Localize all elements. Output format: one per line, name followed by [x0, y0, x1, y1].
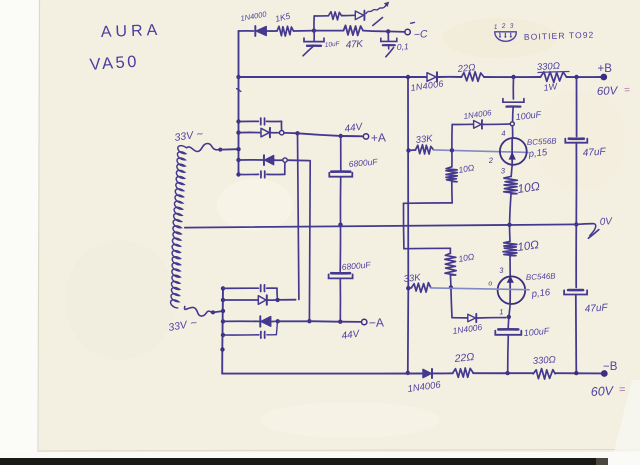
wire +A node down to C3: [340, 136, 342, 170]
diode D9 1N4006 upper: [474, 120, 482, 129]
capacitor C11 snubber: [261, 285, 265, 292]
node -B rail at C8: [574, 371, 578, 375]
diode D8 1N4006 on -B rail: [423, 369, 432, 378]
wire R12 to 0V: [510, 194, 512, 225]
wire 0V terminal hook: [576, 224, 599, 239]
node -B rail at C6: [505, 371, 509, 375]
svg-text:47uF: 47uF: [582, 146, 606, 159]
pin label 3 Q2: [499, 266, 505, 275]
wire 0V to R13: [509, 225, 512, 242]
label 60V bottom: [590, 384, 626, 399]
node 47uF at 0V: [574, 222, 578, 226]
label -B: [603, 361, 618, 373]
label BC556B: [527, 136, 558, 147]
svg-text:4: 4: [501, 129, 506, 138]
wire cap4 row: [223, 334, 259, 336]
wire corner left: [404, 202, 453, 204]
wire R5 to node2: [363, 30, 388, 33]
wire C6 to -B rail: [507, 335, 510, 373]
wire emitter2 to C6: [507, 317, 510, 328]
wire C4 to -A rail: [339, 278, 341, 321]
wire 47uF column upper: [576, 77, 578, 137]
wire ring to Q1: [511, 126, 513, 138]
wire -A rail b: [309, 320, 338, 323]
wire cap3 to corner: [267, 288, 278, 297]
node emitter2 diode junction: [507, 315, 511, 319]
node bias feed 33K lower: [406, 286, 410, 290]
wire +A node to cap node: [298, 133, 339, 136]
wire R10 to corner: [451, 181, 453, 203]
label 10uF: [324, 40, 340, 49]
wire 33K upper lead: [409, 149, 416, 151]
pin label 4: [501, 129, 506, 138]
label 60V top: [597, 85, 630, 98]
wire diode2 row: [239, 159, 263, 161]
label 1N4006 D9: [463, 108, 493, 121]
resistor R13 10R emitter lower: [503, 241, 517, 255]
wire node up to sub-branch: [314, 16, 329, 31]
pin label 2 Q2: [488, 280, 493, 287]
wire base 1 light blue: [434, 150, 529, 153]
label 0V: [599, 216, 613, 228]
wire base 2 light blue: [431, 288, 529, 290]
resistor R8 22R: [453, 368, 473, 377]
wire cap2 to ring: [267, 162, 285, 174]
svg-text:1: 1: [499, 307, 504, 316]
svg-text:22Ω: 22Ω: [453, 351, 475, 365]
resistor R7 330R 1W: [541, 72, 567, 83]
transformer T1 primary coil: [171, 146, 186, 308]
capacitor C6 100uF lower: [495, 329, 521, 335]
label 33V~ bottom: [167, 317, 198, 334]
resistor R1 33K upper: [416, 145, 434, 154]
title VA50: [89, 53, 140, 74]
label -C: [411, 22, 429, 41]
label 47uF lower: [584, 302, 608, 315]
wire Q2 emitter down: [509, 304, 510, 317]
node D3 output: [275, 298, 279, 302]
wire cap4 to D4 node: [267, 324, 278, 335]
label 6800uF upper: [348, 156, 378, 169]
resistor R12 10R emitter upper: [504, 176, 518, 193]
wire D4 to node: [271, 320, 275, 322]
wire ring to +A node: [284, 132, 295, 134]
node +A at 6800uF: [339, 134, 343, 138]
wire cap3 row: [223, 287, 258, 289]
resistor R9 330R: [533, 369, 555, 380]
pin label 3: [500, 166, 506, 175]
wire base2 down: [451, 287, 468, 318]
svg-text:0,1: 0,1: [396, 41, 409, 52]
label 1N4006 D10: [452, 322, 483, 336]
wire D2 to ring: [274, 159, 282, 161]
node top branch junction 2: [386, 29, 390, 33]
wire ring to corner: [287, 159, 309, 161]
resistor R3 1K5: [277, 26, 294, 36]
wire node to R5: [314, 30, 344, 32]
wire R3 to node: [294, 30, 314, 32]
terminal +A: [363, 134, 368, 139]
node upper bus at +B rail: [236, 75, 240, 79]
svg-text:22Ω: 22Ω: [456, 62, 476, 75]
wire diode4 row: [223, 320, 259, 322]
svg-text:60V: 60V: [590, 384, 615, 399]
node -A at x310: [307, 319, 311, 323]
wire to +A terminal: [341, 135, 363, 137]
label 123 pins: [494, 23, 515, 31]
svg-text:47K: 47K: [345, 39, 364, 51]
node D1 output ring: [280, 131, 284, 135]
svg-text:33K: 33K: [415, 133, 434, 146]
wire -A rail c: [340, 321, 361, 323]
label 33V~ top: [174, 128, 205, 144]
terminal -C: [405, 29, 410, 34]
svg-text:0V: 0V: [599, 216, 613, 228]
label 330R: [537, 61, 569, 73]
svg-text:+A: +A: [371, 130, 386, 145]
node +B rail at C5: [511, 75, 515, 79]
wire R11 to base2: [449, 275, 452, 287]
resistor R4 top sub-branch: [329, 12, 342, 20]
capacitor C10 snubber: [261, 171, 265, 178]
diode D3 rectifier +A: [258, 295, 267, 304]
label BC546B: [526, 271, 557, 282]
svg-text:o: o: [488, 280, 493, 287]
transistor Q2 BC546B: [498, 276, 526, 304]
wire corner right: [404, 247, 451, 249]
node 0V at emitters: [507, 223, 511, 227]
wire +A vertical x298: [298, 133, 299, 299]
node +B rail at C7: [574, 75, 578, 79]
node lower bridge diode4 row: [221, 319, 225, 323]
capacitor C7 47uF upper: [565, 139, 587, 143]
diode D1 rectifier +A: [261, 128, 270, 137]
svg-text:−B: −B: [603, 361, 618, 373]
wire bias feed vertical: [407, 77, 410, 373]
label 22R: [456, 62, 476, 75]
sketch TO92 package: [495, 32, 516, 42]
label BOITIER TO92: [524, 30, 595, 42]
node base2 junction: [449, 285, 453, 289]
node top branch junction: [312, 28, 316, 32]
label 100uF upper: [515, 109, 542, 122]
wire diode3 row: [223, 299, 258, 301]
wire cap2 row: [239, 173, 259, 175]
node lower bus extra: [220, 347, 224, 351]
wire transformer bottom lead squiggle: [184, 307, 221, 317]
svg-text:+B: +B: [598, 63, 613, 75]
wire Q1 emitter to R12: [511, 165, 512, 177]
node lower bridge cap4 row: [221, 333, 225, 337]
node base1 junction: [450, 148, 454, 152]
svg-text:BC556B: BC556B: [527, 136, 558, 147]
label 1W: [543, 81, 559, 93]
wire D3 node to corner: [278, 299, 296, 301]
label 1N4000: [240, 9, 268, 23]
label 44V upper: [344, 121, 364, 135]
wire -B rail: [222, 372, 602, 374]
wire +B rail: [239, 76, 603, 78]
wire C5 top lead: [512, 77, 514, 99]
diode D2 rectifier -A: [264, 155, 274, 165]
label -A: [369, 315, 384, 330]
diode D10 1N4006 lower: [468, 314, 477, 322]
node bias feed top: [406, 75, 410, 79]
label +A: [371, 130, 386, 145]
label 0,1: [396, 41, 409, 52]
svg-text:−A: −A: [369, 315, 384, 330]
wire R13 to Q2: [509, 256, 511, 276]
svg-text:p,15: p,15: [527, 147, 548, 160]
diode D5 1N4000: [255, 26, 266, 36]
svg-text:=: =: [624, 85, 630, 96]
wire cap1 to corner: [267, 121, 282, 129]
wire to R11: [449, 248, 451, 253]
wire C3 to 0V: [339, 177, 341, 225]
diode D7 1N4006 on +B rail: [427, 72, 437, 81]
wire base1 to R10: [451, 150, 453, 167]
node bias feed bottom: [406, 371, 410, 375]
label 6800uF lower: [341, 259, 371, 272]
node transformer tap upper: [236, 147, 240, 151]
label 44V lower: [341, 328, 361, 342]
resistor R10 10R upper: [446, 167, 457, 182]
resistor R5 47K: [344, 25, 364, 35]
label 10R emitter upper: [516, 179, 540, 196]
wire 0V rail: [185, 224, 577, 227]
wire D10 to emitter column: [477, 317, 506, 319]
resistor R11 10R lower: [445, 253, 456, 275]
wire -A rail a: [278, 320, 307, 322]
label 47uF upper: [582, 146, 606, 159]
node upper bridge cap2 row: [236, 172, 240, 176]
wire diode branch up: [452, 124, 473, 150]
wire D9 to emitter column: [482, 123, 510, 125]
svg-text:60V: 60V: [597, 85, 619, 98]
wire node2 to C2: [387, 31, 389, 40]
node upper bridge diode1 row: [236, 130, 240, 134]
wire -A vertical x310: [308, 161, 311, 322]
node D4 output: [276, 319, 280, 323]
wire transformer top lead squiggle: [187, 144, 238, 152]
transistor Q1 BC556B: [500, 138, 527, 165]
wire cap1 row: [239, 120, 259, 122]
capacitor C4 6800uF lower: [329, 273, 353, 278]
svg-text:=: =: [619, 384, 627, 396]
terminal -A: [362, 319, 367, 324]
title AURA: [101, 22, 162, 41]
node transformer tap lower: [221, 309, 225, 313]
resistor R6 22R: [462, 72, 485, 82]
wire 33K lower lead: [408, 287, 411, 289]
wire squiggle arrow: [366, 2, 389, 26]
pin label 2: [487, 156, 494, 165]
wire node to C1: [313, 31, 315, 41]
terminal -B: [602, 371, 607, 376]
label 10R bias upper: [458, 162, 476, 175]
label 100uF lower: [523, 326, 550, 338]
capacitor C9 snubber: [261, 118, 265, 125]
wire top branch left: [239, 30, 254, 32]
capacitor C1 10uF: [303, 38, 324, 56]
wire D3 to node: [267, 299, 275, 301]
label 330R lower: [532, 354, 556, 367]
wire node2 to -C terminal: [388, 30, 405, 33]
capacitor C12 snubber: [261, 332, 265, 339]
node -A at 6800uF: [338, 320, 342, 324]
label 22R lower: [453, 351, 475, 365]
svg-text:p,16: p,16: [530, 287, 551, 300]
wire D5 to R3: [267, 30, 277, 32]
label +B: [598, 63, 613, 75]
wire upper bus vertical: [237, 31, 241, 175]
pin label 1 Q2: [499, 307, 504, 316]
capacitor C2 0.1: [381, 38, 397, 57]
label 1N4006 D8: [407, 379, 442, 395]
svg-text:47uF: 47uF: [584, 302, 608, 315]
label 47K: [345, 39, 364, 51]
node lower bridge cap3 row: [221, 286, 225, 290]
label 33K upper: [415, 133, 434, 146]
label 33K lower: [403, 272, 422, 285]
capacitor C8 47uF lower: [564, 290, 587, 295]
node bias feed 33K upper: [406, 148, 410, 152]
node upper bridge diode2 row: [236, 158, 240, 162]
capacitor C3 6800uF upper: [329, 172, 352, 177]
node upper bridge cap1 row: [236, 119, 240, 123]
label 1N4006 D7: [410, 78, 444, 93]
svg-text:33K: 33K: [403, 272, 422, 285]
svg-text:330Ω: 330Ω: [532, 354, 556, 367]
node 6800uF at 0V: [338, 223, 342, 227]
wire diode1 row: [239, 131, 261, 133]
resistor R2 33K lower: [412, 283, 431, 293]
wire D1 to ring: [271, 132, 280, 134]
label 10R bias lower: [458, 251, 476, 264]
wire lower bus vertical: [221, 287, 224, 373]
label 1K5: [274, 11, 291, 24]
svg-text:AURA: AURA: [101, 22, 162, 41]
svg-text:−C: −C: [414, 28, 429, 41]
terminal +B: [601, 74, 606, 79]
node D2 output ring: [283, 158, 287, 162]
wire 47uF column lower: [575, 295, 578, 373]
node +A junction: [295, 131, 299, 135]
label P15: [527, 147, 548, 160]
wire bias vertical x403: [402, 203, 404, 248]
wire 0V to C4: [339, 225, 341, 272]
label 10R emitter lower: [517, 239, 540, 254]
svg-text:BC546B: BC546B: [526, 271, 557, 282]
diode D6 top sub-branch: [355, 11, 364, 20]
node lower bridge diode3 row: [221, 298, 225, 302]
node emitter1 ring: [510, 122, 514, 126]
wire R4 to D6: [342, 14, 356, 16]
label P16: [530, 287, 551, 300]
wire C5 to emitter ring: [512, 107, 515, 122]
wire 47uF column middle: [575, 143, 577, 288]
capacitor C5 100uF upper: [503, 99, 524, 107]
svg-text:VA50: VA50: [89, 53, 140, 74]
diode D4 rectifier -A: [260, 316, 270, 326]
